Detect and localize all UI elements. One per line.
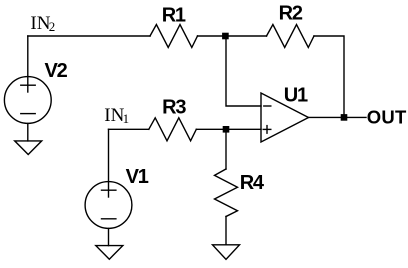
voltage source V1 <box>85 182 132 229</box>
svg-text:IN: IN <box>30 13 50 34</box>
svg-text:R2: R2 <box>279 3 303 25</box>
wire J1 to inverting input <box>226 36 261 106</box>
wire IN1 corner down to V1 <box>108 129 110 197</box>
wire R4 to ground <box>225 217 227 245</box>
svg-text:R3: R3 <box>162 97 186 119</box>
resistor R1 <box>150 25 198 48</box>
wire J2 down to R4 <box>225 129 227 169</box>
wire R2 to output node <box>314 36 344 117</box>
svg-text:OUT: OUT <box>367 106 407 127</box>
wire R1 to R2 <box>198 35 267 37</box>
svg-text:U1: U1 <box>284 85 308 107</box>
junction J1 <box>222 33 229 40</box>
voltage source V2 <box>4 77 51 124</box>
wire IN2 top horizontal <box>28 35 150 37</box>
svg-text:IN: IN <box>104 105 124 126</box>
ground G3 <box>213 245 240 260</box>
node IN2 label <box>30 13 55 34</box>
wire opamp output to OUT <box>309 116 367 118</box>
wire V1 to ground <box>108 228 110 245</box>
resistor R2 <box>267 25 315 48</box>
junction J3 <box>341 114 348 121</box>
svg-text:2: 2 <box>49 19 56 34</box>
node IN1 label <box>104 105 129 126</box>
svg-text:V1: V1 <box>126 166 149 188</box>
resistor R4 <box>215 169 238 217</box>
wire V2 to ground <box>27 123 29 140</box>
wire R3 to noninverting input <box>196 128 261 130</box>
ground G1 <box>15 141 42 155</box>
wire IN1 to R3 <box>109 128 149 130</box>
svg-text:R1: R1 <box>162 4 186 26</box>
op-amp U1 <box>261 93 309 142</box>
resistor R3 <box>149 118 197 141</box>
svg-text:V2: V2 <box>45 60 68 82</box>
wire IN2 corner down to V2 <box>27 36 29 92</box>
junction J2 <box>223 126 230 133</box>
svg-text:R4: R4 <box>240 172 265 194</box>
svg-text:1: 1 <box>123 111 130 126</box>
ground G2 <box>96 246 123 260</box>
